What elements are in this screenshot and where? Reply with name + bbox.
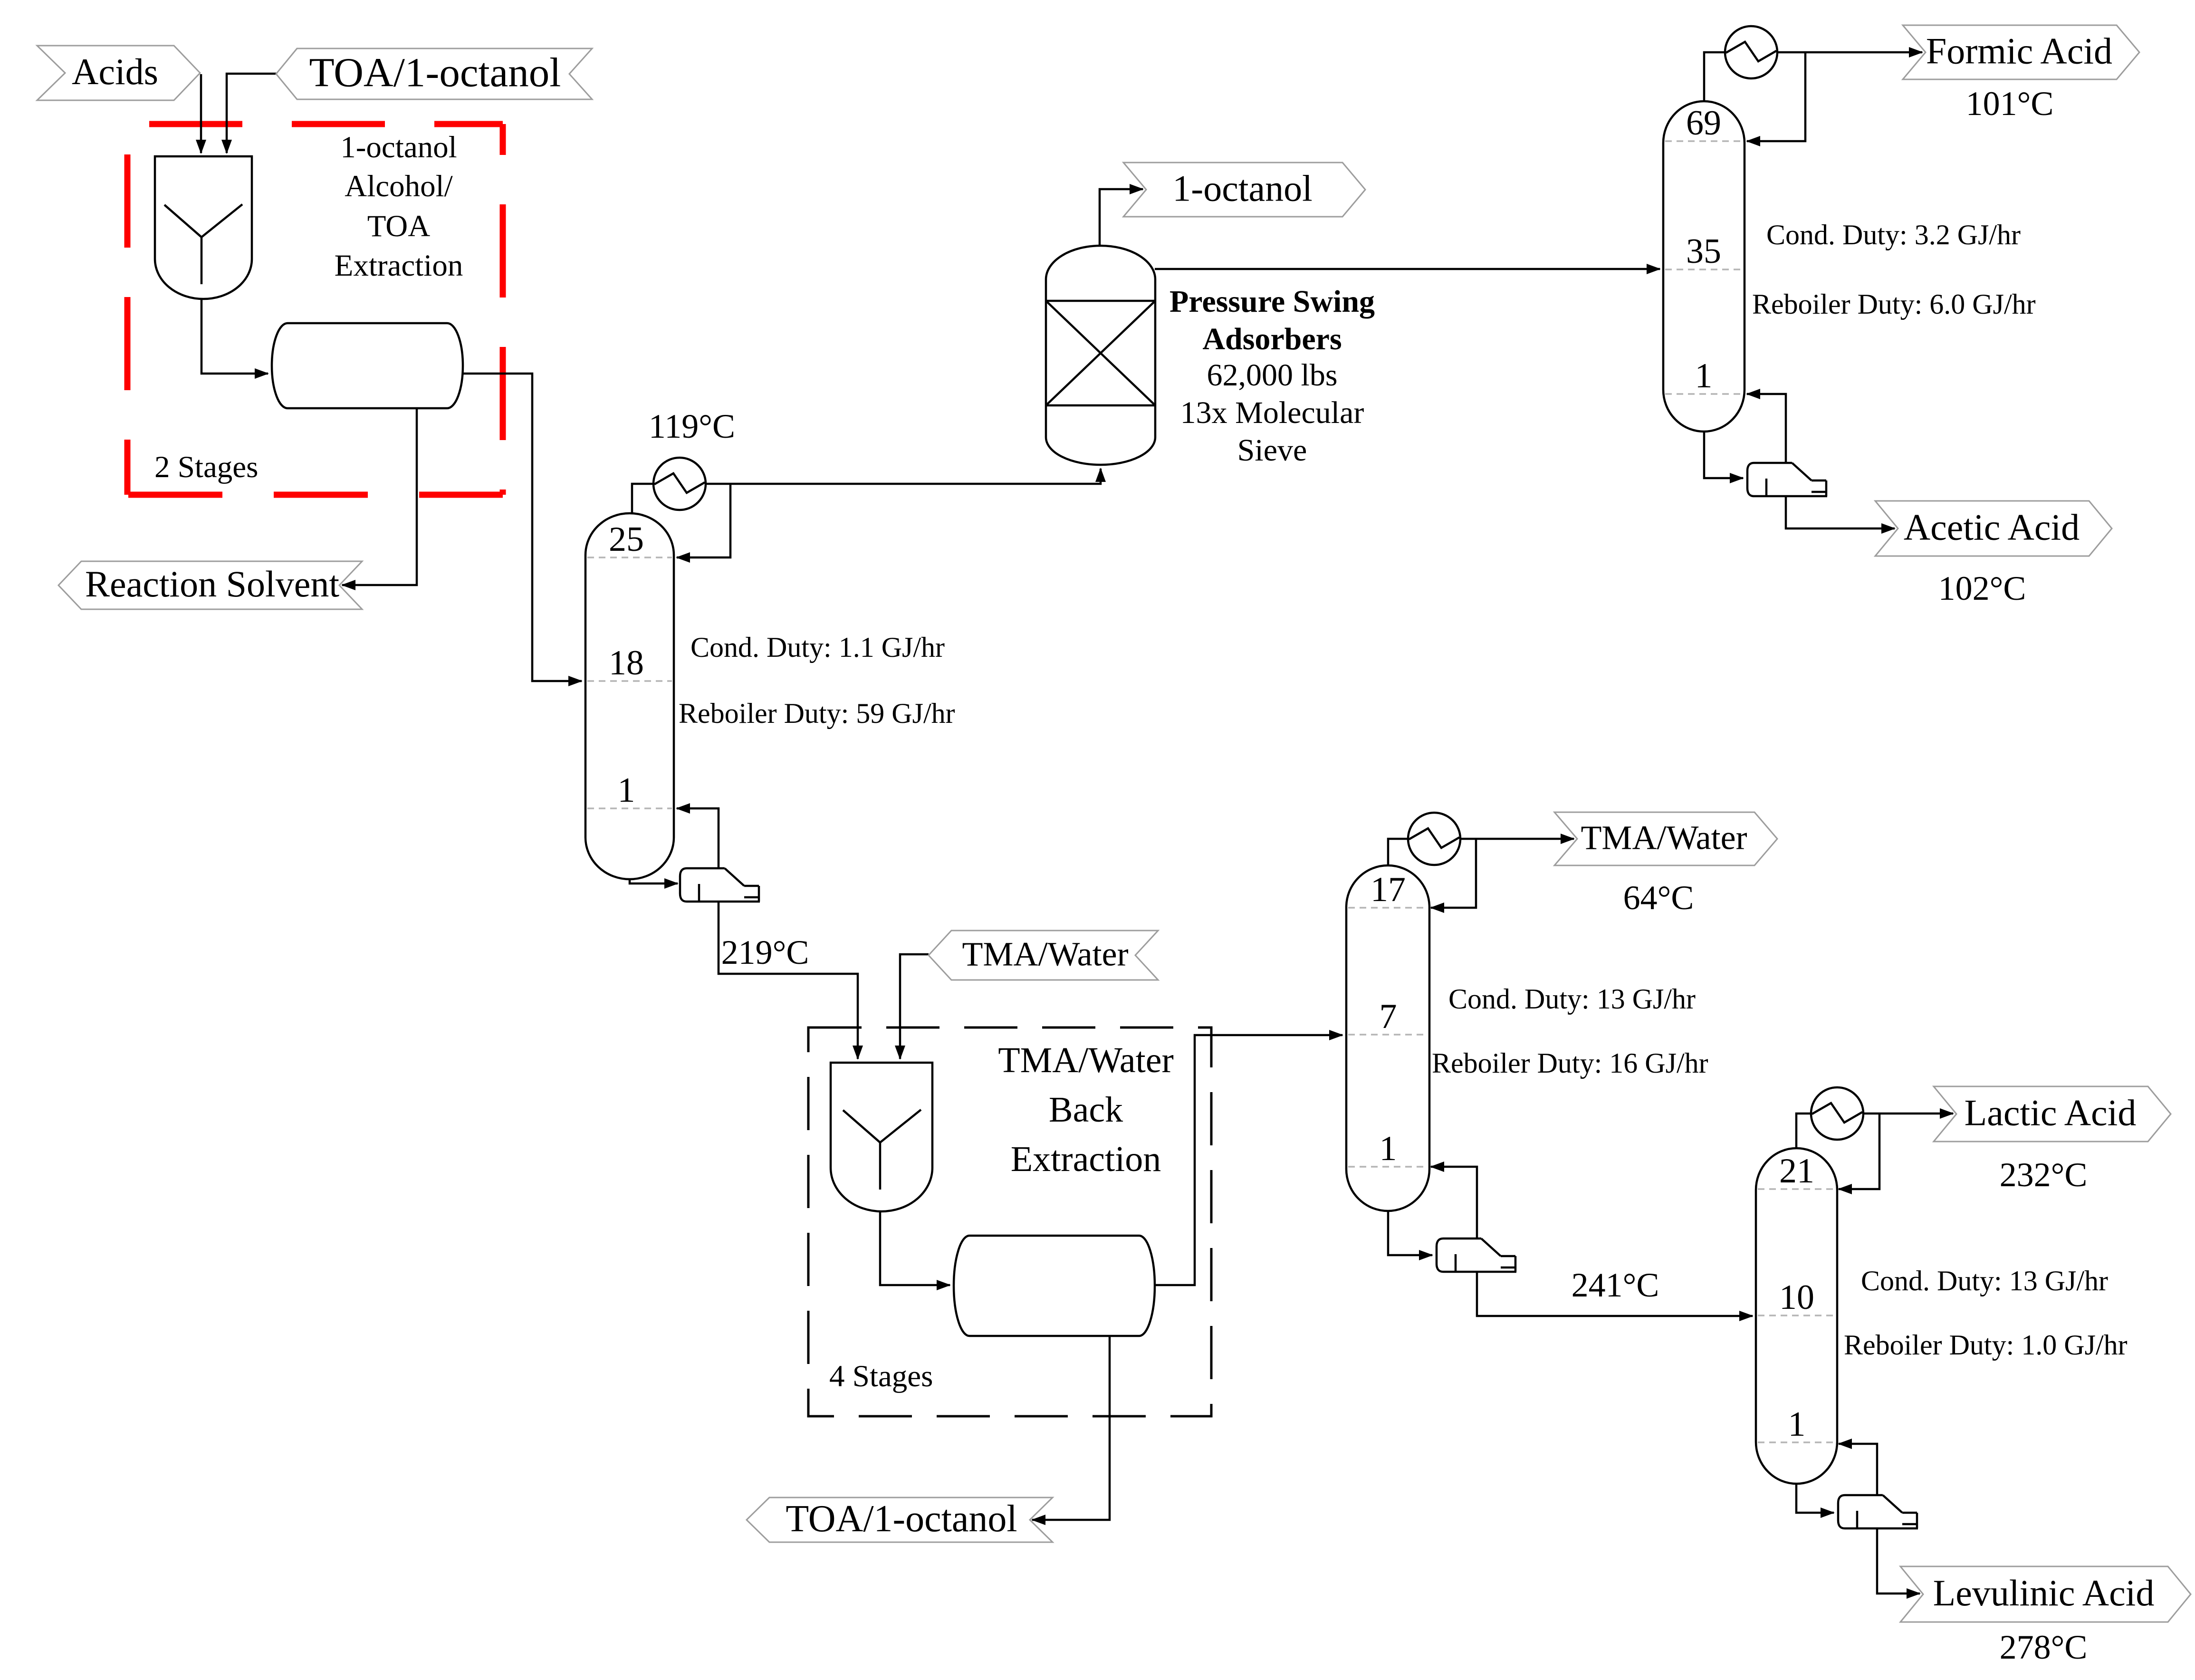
svg-text:Lactic Acid: Lactic Acid <box>1965 1092 2137 1133</box>
svg-text:TMA/Water: TMA/Water <box>1581 819 1747 857</box>
svg-text:1: 1 <box>1788 1405 1806 1444</box>
svg-text:Reboiler Duty: 6.0 GJ/hr: Reboiler Duty: 6.0 GJ/hr <box>1752 288 2036 320</box>
svg-text:Pressure Swing: Pressure Swing <box>1169 284 1375 319</box>
svg-text:Cond. Duty: 3.2 GJ/hr: Cond. Duty: 3.2 GJ/hr <box>1766 219 2021 250</box>
svg-text:1-octanol: 1-octanol <box>340 130 457 164</box>
svg-text:TMA/Water: TMA/Water <box>998 1040 1174 1080</box>
svg-text:13x Molecular: 13x Molecular <box>1180 395 1364 430</box>
svg-text:Cond. Duty: 1.1 GJ/hr: Cond. Duty: 1.1 GJ/hr <box>690 632 945 663</box>
svg-text:4 Stages: 4 Stages <box>829 1359 933 1393</box>
svg-text:Extraction: Extraction <box>335 249 463 283</box>
svg-text:232°C: 232°C <box>2000 1156 2088 1194</box>
svg-text:Back: Back <box>1049 1090 1123 1130</box>
svg-text:1: 1 <box>1695 356 1713 395</box>
svg-text:Sieve: Sieve <box>1237 433 1307 468</box>
svg-text:69: 69 <box>1686 104 1721 143</box>
svg-text:1-octanol: 1-octanol <box>1172 167 1313 209</box>
svg-text:Acids: Acids <box>72 51 158 92</box>
svg-text:101°C: 101°C <box>1966 85 2054 123</box>
svg-text:241°C: 241°C <box>1572 1266 1659 1304</box>
svg-text:Cond. Duty: 13 GJ/hr: Cond. Duty: 13 GJ/hr <box>1448 983 1696 1015</box>
svg-text:Formic Acid: Formic Acid <box>1926 30 2112 71</box>
svg-text:119°C: 119°C <box>649 407 735 445</box>
svg-text:2 Stages: 2 Stages <box>154 450 258 484</box>
svg-text:Acetic Acid: Acetic Acid <box>1904 506 2080 547</box>
svg-text:Extraction: Extraction <box>1011 1139 1161 1179</box>
svg-text:10: 10 <box>1779 1278 1814 1317</box>
svg-text:35: 35 <box>1686 232 1721 271</box>
svg-text:102°C: 102°C <box>1938 569 2026 607</box>
svg-text:1: 1 <box>618 771 635 810</box>
svg-text:1: 1 <box>1380 1129 1397 1168</box>
svg-text:Reaction Solvent: Reaction Solvent <box>85 563 339 605</box>
svg-text:278°C: 278°C <box>2000 1628 2088 1666</box>
svg-text:7: 7 <box>1380 997 1397 1036</box>
svg-text:21: 21 <box>1779 1152 1814 1190</box>
svg-text:Reboiler Duty: 16 GJ/hr: Reboiler Duty: 16 GJ/hr <box>1432 1047 1708 1079</box>
svg-text:TOA: TOA <box>367 209 430 243</box>
svg-text:17: 17 <box>1371 870 1406 909</box>
svg-text:Cond. Duty: 13 GJ/hr: Cond. Duty: 13 GJ/hr <box>1861 1265 2108 1296</box>
svg-text:TMA/Water: TMA/Water <box>962 935 1128 973</box>
svg-text:Adsorbers: Adsorbers <box>1202 322 1342 356</box>
svg-text:Reboiler Duty: 1.0 GJ/hr: Reboiler Duty: 1.0 GJ/hr <box>1844 1329 2128 1361</box>
svg-text:64°C: 64°C <box>1623 879 1694 917</box>
svg-text:219°C: 219°C <box>721 933 809 971</box>
svg-text:TOA/1-octanol: TOA/1-octanol <box>786 1498 1017 1540</box>
svg-text:62,000 lbs: 62,000 lbs <box>1207 358 1337 393</box>
svg-text:Levulinic Acid: Levulinic Acid <box>1933 1572 2155 1613</box>
svg-text:25: 25 <box>609 520 644 559</box>
svg-text:18: 18 <box>609 643 644 682</box>
svg-text:Alcohol/: Alcohol/ <box>345 169 453 203</box>
svg-text:TOA/1-octanol: TOA/1-octanol <box>309 49 561 96</box>
svg-text:Reboiler Duty: 59 GJ/hr: Reboiler Duty: 59 GJ/hr <box>679 698 955 729</box>
